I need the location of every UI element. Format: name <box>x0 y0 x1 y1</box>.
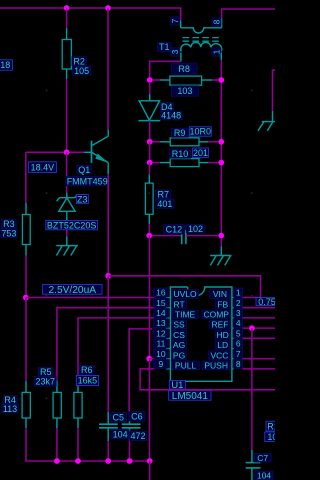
pin stub right 8 <box>232 368 234 370</box>
resistor R3 body <box>22 215 30 245</box>
pin stub right 4 <box>232 327 234 329</box>
svg-text:8: 8 <box>236 359 241 369</box>
svg-text:PG: PG <box>173 350 185 360</box>
wire UVLO node to chip pin 16 <box>26 297 154 299</box>
value FMMT459 of Q1 <box>66 176 109 186</box>
wire chip pin 3 COMP to right edge <box>243 317 275 319</box>
label R2 <box>72 57 86 67</box>
transformer T1 label <box>158 42 172 52</box>
resistor R5 bottom lead teal <box>56 418 58 428</box>
pin name COMP of U1 <box>202 310 230 320</box>
svg-text:R7: R7 <box>158 190 170 200</box>
transistor Q1 base bar <box>91 141 93 163</box>
wire chip pin 15 to R5 <box>57 308 154 381</box>
value LM5041 of U1 <box>169 390 211 402</box>
resistor R10 left lead <box>152 162 170 164</box>
pin stub left 12 <box>166 337 170 339</box>
wire 18.4V node down-left to R3 <box>25 152 27 203</box>
svg-text:1: 1 <box>236 288 241 298</box>
pin name AG of U1 <box>172 340 187 350</box>
diode D4 anode lead <box>149 82 151 101</box>
grid reference dots (decorative) <box>46 90 253 400</box>
svg-text:201: 201 <box>193 148 208 158</box>
svg-text:6: 6 <box>236 339 241 349</box>
svg-text:Z3: Z3 <box>77 194 88 204</box>
transistor Q1 emitter diagonal <box>92 152 109 163</box>
wire chip pin 9 PULL loop under chip to right edge <box>140 369 275 390</box>
pin name TIME of U1 <box>172 310 199 320</box>
node 18.4V junction <box>64 149 70 155</box>
label R8 <box>171 63 197 74</box>
value 104 of C7 <box>255 471 273 480</box>
wire transformer pin 8 to top right edge <box>222 9 275 18</box>
resistor R7 top lead <box>148 175 150 184</box>
svg-text:472: 472 <box>131 431 146 441</box>
wire chip pin 8 PUSH to right edge <box>243 368 275 370</box>
label R9 <box>171 128 188 138</box>
wire chip pin 7 VCC to right edge <box>243 358 275 360</box>
diode D4 cathode lead <box>149 121 151 139</box>
wire C12 left <box>152 235 182 237</box>
wire R10 right to rail <box>208 162 221 164</box>
value 103 of R8 <box>171 86 198 96</box>
clipped diode diagonal 1 <box>258 122 264 131</box>
svg-text:23k7: 23k7 <box>35 377 55 387</box>
pin stub right 1 <box>232 297 234 299</box>
svg-text:LD: LD <box>217 340 228 350</box>
pin number 8 of U1 <box>234 359 243 369</box>
transformer T1 pin 8 lead <box>221 18 223 28</box>
pin name FB of U1 <box>215 299 230 309</box>
transformer T1 core line 1 <box>183 37 221 39</box>
label R3 <box>2 219 17 229</box>
wire C12 node down to ground <box>220 238 222 247</box>
wire R5 bottom to ground bus <box>56 428 58 461</box>
label R1 (clipped) <box>266 421 280 431</box>
pin number 6 of U1 <box>234 339 243 349</box>
label 2.5V/20uA net <box>43 284 103 296</box>
wire VIN node right to chip pin 1 <box>108 276 260 298</box>
pin number 16 of U1 <box>154 288 169 298</box>
node UVLO junction <box>23 295 29 301</box>
svg-text:AG: AG <box>173 340 185 350</box>
svg-text:16k5: 16k5 <box>78 376 98 386</box>
label R4 <box>3 395 17 405</box>
pin number 4 of U1 <box>234 318 243 328</box>
clipped diode top bar <box>262 121 275 123</box>
svg-text:R8: R8 <box>178 64 190 74</box>
node REF junction to C7 <box>249 325 255 331</box>
svg-text:11: 11 <box>156 339 165 349</box>
wire R4 bottom to ground bus <box>26 428 150 461</box>
svg-text:R1: R1 <box>267 421 275 431</box>
value 102 of C12 <box>186 224 205 234</box>
pin name VCC of U1 <box>209 350 231 360</box>
svg-text:104: 104 <box>113 429 128 439</box>
resistor R3 top lead teal <box>25 203 27 215</box>
zener Z3 anode lead <box>66 211 68 220</box>
wire R3 bottom to UVLO node <box>25 256 27 298</box>
wire C12 right <box>186 235 221 237</box>
pin name PULL of U1 <box>172 361 200 371</box>
transistor Q1 collector lead <box>107 129 109 136</box>
svg-text:R9: R9 <box>174 128 186 138</box>
resistor R5 top lead teal <box>56 381 58 392</box>
resistor R9 right lead <box>199 141 210 143</box>
zener Z3 triangle <box>59 198 75 211</box>
diode D4 cathode bar <box>139 120 161 122</box>
svg-text:105: 105 <box>74 66 89 76</box>
pin name LD of U1 <box>215 340 230 350</box>
capacitor C6 bottom plate <box>122 427 141 429</box>
wire 18.4V node horizontal <box>26 151 84 153</box>
pin name PG of U1 <box>172 350 187 360</box>
transistor Q1 base lead teal <box>84 151 92 153</box>
wire chip pin 2 FB to right edge <box>243 307 275 309</box>
node R5 ground junction <box>54 458 60 464</box>
svg-text:C12: C12 <box>166 225 183 235</box>
svg-text:VIN: VIN <box>213 289 227 299</box>
wire C6 bottom to ground bus <box>129 441 131 461</box>
wire R2 bottom to 18.4V node <box>66 79 68 152</box>
zener Z3 cathode bar with tails <box>57 194 78 201</box>
resistor R6 top lead teal <box>77 381 79 392</box>
pin stub left 9 <box>166 368 170 370</box>
resistor R8 left lead <box>152 79 170 81</box>
svg-text:4: 4 <box>236 318 241 328</box>
svg-text:10: 10 <box>156 349 166 359</box>
value BZT52C20S of Z3 <box>46 220 98 230</box>
node R6 ground junction <box>75 458 81 464</box>
wire C5 bottom to ground bus <box>107 441 109 461</box>
pin stub left 10 <box>166 358 170 360</box>
label Z3 <box>76 194 88 204</box>
svg-text:n18: n18 <box>0 60 10 70</box>
svg-text:0.75: 0.75 <box>258 297 275 307</box>
node R9 right junction <box>218 139 224 145</box>
svg-text:T1: T1 <box>159 42 170 52</box>
clipped diode diagonal 2 <box>267 122 272 131</box>
wire right edge to clipped diode <box>273 70 276 111</box>
svg-text:113: 113 <box>3 404 17 414</box>
capacitor C5 bottom plate <box>99 427 118 429</box>
pin name SS of U1 <box>172 320 187 330</box>
svg-text:C5: C5 <box>113 413 125 423</box>
label R6 <box>79 365 94 375</box>
svg-text:7: 7 <box>170 18 180 23</box>
pin stub right 7 <box>232 358 234 360</box>
value 104 of C5 <box>111 429 129 439</box>
capacitor C6 top lead teal <box>129 412 131 424</box>
pin number 7 of T1 <box>170 17 180 25</box>
resistor R7 bottom lead <box>148 214 150 224</box>
svg-text:RT: RT <box>173 299 184 309</box>
node VIN junction <box>105 273 111 279</box>
svg-text:5: 5 <box>236 328 241 338</box>
svg-text:4148: 4148 <box>161 111 181 121</box>
pin stub right 5 <box>232 337 234 339</box>
label C5 <box>110 413 126 423</box>
svg-text:15: 15 <box>156 298 166 308</box>
pin number 14 of U1 <box>154 308 169 318</box>
wire R7 bottom to C12 node <box>148 224 150 236</box>
svg-text:BZT52C20S: BZT52C20S <box>47 220 97 230</box>
value 201 of R10 <box>193 148 209 158</box>
node C6 ground junction <box>127 458 133 464</box>
pin number 5 of U1 <box>234 328 243 338</box>
resistor R8 right lead <box>202 79 222 81</box>
node C12 left junction <box>146 233 152 239</box>
wire C12 node down to PG node <box>149 236 151 359</box>
svg-text:COMP: COMP <box>203 310 229 320</box>
wire chip pin 14 to R6 <box>78 318 154 381</box>
node C5 ground junction <box>105 458 111 464</box>
value 23k7 of R5 <box>34 377 56 387</box>
resistor R10 body <box>170 159 199 167</box>
pin number 3 of T1 <box>170 48 180 56</box>
label 18.4V net <box>28 162 56 173</box>
svg-text:13: 13 <box>156 318 166 328</box>
capacitor C5 top plate <box>99 423 118 425</box>
svg-text:R6: R6 <box>81 365 93 375</box>
node R8 right junction <box>218 77 224 83</box>
svg-text:REF: REF <box>211 320 228 330</box>
pin number 7 of U1 <box>234 349 243 359</box>
ground symbol left (earth) <box>56 246 78 256</box>
wire T1 pin 3 down-left to R8 left node <box>150 61 181 77</box>
pin stub left 13 <box>166 327 170 329</box>
resistor R4 bottom lead teal <box>25 418 27 428</box>
pin number 9 of U1 <box>154 359 169 369</box>
capacitor C5 bottom lead teal <box>107 428 109 441</box>
wire ground bus stub to bottom edge <box>149 461 151 480</box>
resistor R8 body <box>170 76 202 85</box>
svg-text:FB: FB <box>217 299 228 309</box>
resistor R2 bottom lead teal <box>66 69 68 79</box>
value 4148 of D4 <box>160 111 182 121</box>
wire right vertical rail T1 pin1 down to C12 <box>220 60 222 236</box>
label Q1 <box>77 165 91 175</box>
pin stub left 14 <box>166 317 170 319</box>
label R5 <box>38 367 53 377</box>
label C7 <box>254 453 271 463</box>
capacitor C6 top plate <box>122 423 141 425</box>
node R9 left junction <box>147 139 153 145</box>
node junction dot top of R2 <box>64 5 70 11</box>
pin number 3 of U1 <box>234 308 243 318</box>
diode D4 anode lead teal part <box>149 94 151 101</box>
value 472 of C6 <box>130 431 147 441</box>
transistor Q1 emitter arrow <box>95 154 108 163</box>
pin stub left 15 <box>166 307 170 309</box>
svg-text:Q1: Q1 <box>78 165 90 175</box>
svg-text:16: 16 <box>156 288 166 298</box>
wire Q1 emitter down to VIN node <box>107 174 109 275</box>
capacitor C7 top plate <box>246 462 261 464</box>
svg-text:VCC: VCC <box>210 350 228 360</box>
pin number 1 of T1 <box>212 48 222 56</box>
pin stub left 16 <box>166 297 170 299</box>
wire Q1 collector up to top rail <box>107 8 109 129</box>
svg-text:R10: R10 <box>172 149 189 159</box>
resistor R2 top lead teal <box>66 28 68 40</box>
label n18 net (clipped at left edge) <box>0 60 12 70</box>
pin number 8 of T1 <box>212 18 222 26</box>
svg-text:104: 104 <box>257 471 271 480</box>
resistor R4 top lead teal <box>25 381 27 392</box>
svg-text:HD: HD <box>217 330 229 340</box>
pin stub right 3 <box>232 317 234 319</box>
svg-text:C6: C6 <box>131 412 143 422</box>
wire R2 top lead <box>66 8 68 28</box>
value 16k5 of R6 <box>76 375 98 385</box>
svg-text:2.5V/20uA: 2.5V/20uA <box>48 285 96 296</box>
node ground bus right end junction <box>147 458 153 464</box>
wire top rail left to transformer pin 7 <box>0 8 181 20</box>
capacitor C6 bottom lead teal <box>129 428 131 441</box>
wire chip pin 4 REF to right edge <box>243 327 275 329</box>
svg-text:10: 10 <box>267 432 275 442</box>
transformer T1 pin 7 lead <box>180 20 182 27</box>
pin stub left 11 <box>166 348 170 350</box>
pin name CS of U1 <box>172 330 187 340</box>
capacitor C12 right plate <box>185 230 187 244</box>
pin stub right 6 <box>232 348 234 350</box>
resistor R9 left lead <box>152 141 170 143</box>
diode D4 triangle <box>139 101 159 120</box>
capacitor C7 bottom plate <box>246 467 261 469</box>
svg-text:LM5041: LM5041 <box>172 391 209 402</box>
ground symbol right (earth) <box>210 256 231 266</box>
svg-text:UVLO: UVLO <box>173 289 197 299</box>
pin name PUSH of U1 <box>202 361 230 371</box>
pin stub right 2 <box>232 307 234 309</box>
wire R9 right to rail <box>208 141 221 143</box>
label C12 <box>164 225 185 235</box>
resistor R2 body <box>62 40 71 70</box>
clipped diode cathode lead teal <box>272 111 274 122</box>
resistor R6 body <box>74 392 82 418</box>
svg-text:753: 753 <box>1 228 16 238</box>
svg-text:12: 12 <box>156 328 166 338</box>
value 10R0 of R9 <box>189 127 211 137</box>
pin number 2 of U1 <box>234 298 243 308</box>
svg-text:14: 14 <box>156 308 166 318</box>
ground lead teal <box>220 247 222 256</box>
wire R10 node down to R7 <box>149 163 151 175</box>
wire 18.4V node down to Z3 <box>66 152 68 192</box>
node PG junction <box>146 356 152 362</box>
node C12 right junction <box>218 233 224 239</box>
node R10 left junction <box>147 160 153 166</box>
capacitor C12 left plate <box>181 230 183 244</box>
svg-text:PULL: PULL <box>175 361 197 371</box>
label R10 <box>170 149 191 159</box>
node R8 left junction <box>147 77 153 83</box>
value 401 of R7 <box>156 199 174 209</box>
svg-text:CS: CS <box>173 330 185 340</box>
svg-text:102: 102 <box>188 224 203 234</box>
label C6 <box>129 412 145 422</box>
svg-text:1: 1 <box>212 49 222 54</box>
resistor R3 bottom lead teal <box>25 245 27 256</box>
pin number 12 of U1 <box>154 328 169 338</box>
zener Z3 ground lead teal <box>66 237 68 246</box>
pin number 1 of U1 <box>234 288 243 298</box>
svg-text:2: 2 <box>236 298 241 308</box>
svg-text:3: 3 <box>170 49 180 54</box>
svg-text:8: 8 <box>212 19 222 24</box>
resistor R10 right lead <box>199 162 210 164</box>
wire VIN node down to C5 <box>107 276 109 412</box>
transformer T1 core line 2 <box>183 40 221 42</box>
value 10 of R1 (clipped) <box>265 432 280 442</box>
label R7 <box>156 190 171 200</box>
node junction dot top of Q1 collector <box>105 5 111 11</box>
svg-text:7: 7 <box>236 349 241 359</box>
svg-text:PUSH: PUSH <box>204 361 228 371</box>
pin name HD of U1 <box>215 330 230 340</box>
value 753 of R3 <box>1 228 17 238</box>
wire chip pin 5 HD to right edge <box>243 337 275 339</box>
svg-text:C7: C7 <box>257 453 268 463</box>
svg-text:401: 401 <box>157 199 172 209</box>
pin number 15 of U1 <box>154 298 169 308</box>
transistor Q1 collector diagonal <box>92 136 109 146</box>
capacitor C5 top lead teal <box>107 412 109 424</box>
svg-text:3: 3 <box>236 308 241 318</box>
label 0.75 net (clipped) <box>256 297 278 307</box>
svg-text:R5: R5 <box>40 367 52 377</box>
svg-text:FMMT459: FMMT459 <box>67 176 108 186</box>
label U1 <box>169 380 185 391</box>
pin name VIN of U1 <box>210 289 231 299</box>
wire REF node down to C7 <box>251 328 253 450</box>
svg-text:103: 103 <box>177 86 192 96</box>
wire chip pin 13 to C6 <box>129 329 152 412</box>
wire R6 bottom to ground bus <box>77 428 79 461</box>
wire UVLO node down to R4 <box>25 298 27 382</box>
resistor R5 body <box>53 392 61 418</box>
svg-text:9: 9 <box>159 359 164 369</box>
wire PG node to chip pin 10 <box>149 358 154 360</box>
svg-text:10R0: 10R0 <box>190 127 212 137</box>
resistor R7 body <box>145 183 153 214</box>
svg-text:18.4V: 18.4V <box>31 162 55 172</box>
pin number 11 of U1 <box>154 339 169 349</box>
transformer T1 pin 3 lead <box>180 53 182 62</box>
pin name REF of U1 <box>210 320 231 330</box>
resistor R9 body <box>170 138 199 146</box>
resistor R6 bottom lead teal <box>77 418 79 428</box>
op-amp U1 chip body LM5041 <box>170 287 232 381</box>
svg-text:SS: SS <box>173 320 185 330</box>
pin number 13 of U1 <box>154 318 169 328</box>
svg-text:TIME: TIME <box>175 310 196 320</box>
svg-text:R3: R3 <box>3 219 15 229</box>
capacitor C7 top lead teal <box>251 450 253 463</box>
resistor R4 body <box>22 392 30 418</box>
pin number 10 of U1 <box>154 349 169 359</box>
transformer T1 pin 1 lead <box>220 53 222 61</box>
node R10 right junction <box>218 160 224 166</box>
zener Z3 cathode lead teal <box>66 193 68 198</box>
pin name UVLO of U1 <box>172 289 199 299</box>
capacitor C7 bottom lead teal <box>251 468 253 480</box>
value 113 of R4 <box>2 404 18 414</box>
wire Z3 anode to ground <box>66 230 68 237</box>
transistor Q1 emitter lead <box>107 163 109 175</box>
